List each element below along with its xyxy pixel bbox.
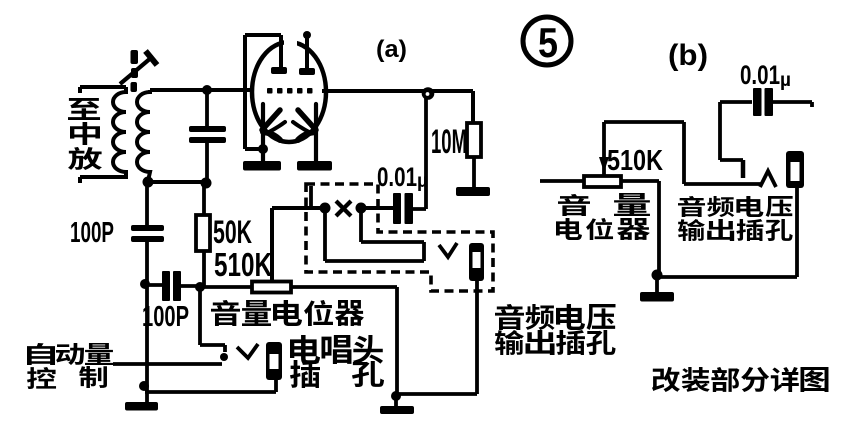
svg-text:(b): (b) <box>668 39 708 72</box>
svg-text:100P: 100P <box>70 217 114 249</box>
svg-text:0.01: 0.01 <box>377 162 417 192</box>
svg-text:510K: 510K <box>214 246 272 283</box>
svg-text:µ: µ <box>417 171 428 192</box>
svg-text:µ: µ <box>780 70 791 91</box>
svg-text:5: 5 <box>538 19 558 66</box>
svg-text:0.01: 0.01 <box>740 60 780 90</box>
svg-text:510K: 510K <box>607 145 663 177</box>
svg-text:50K: 50K <box>213 214 252 250</box>
svg-text:10M: 10M <box>431 123 467 161</box>
svg-text:100P: 100P <box>142 301 189 333</box>
svg-text:(a): (a) <box>376 36 407 63</box>
